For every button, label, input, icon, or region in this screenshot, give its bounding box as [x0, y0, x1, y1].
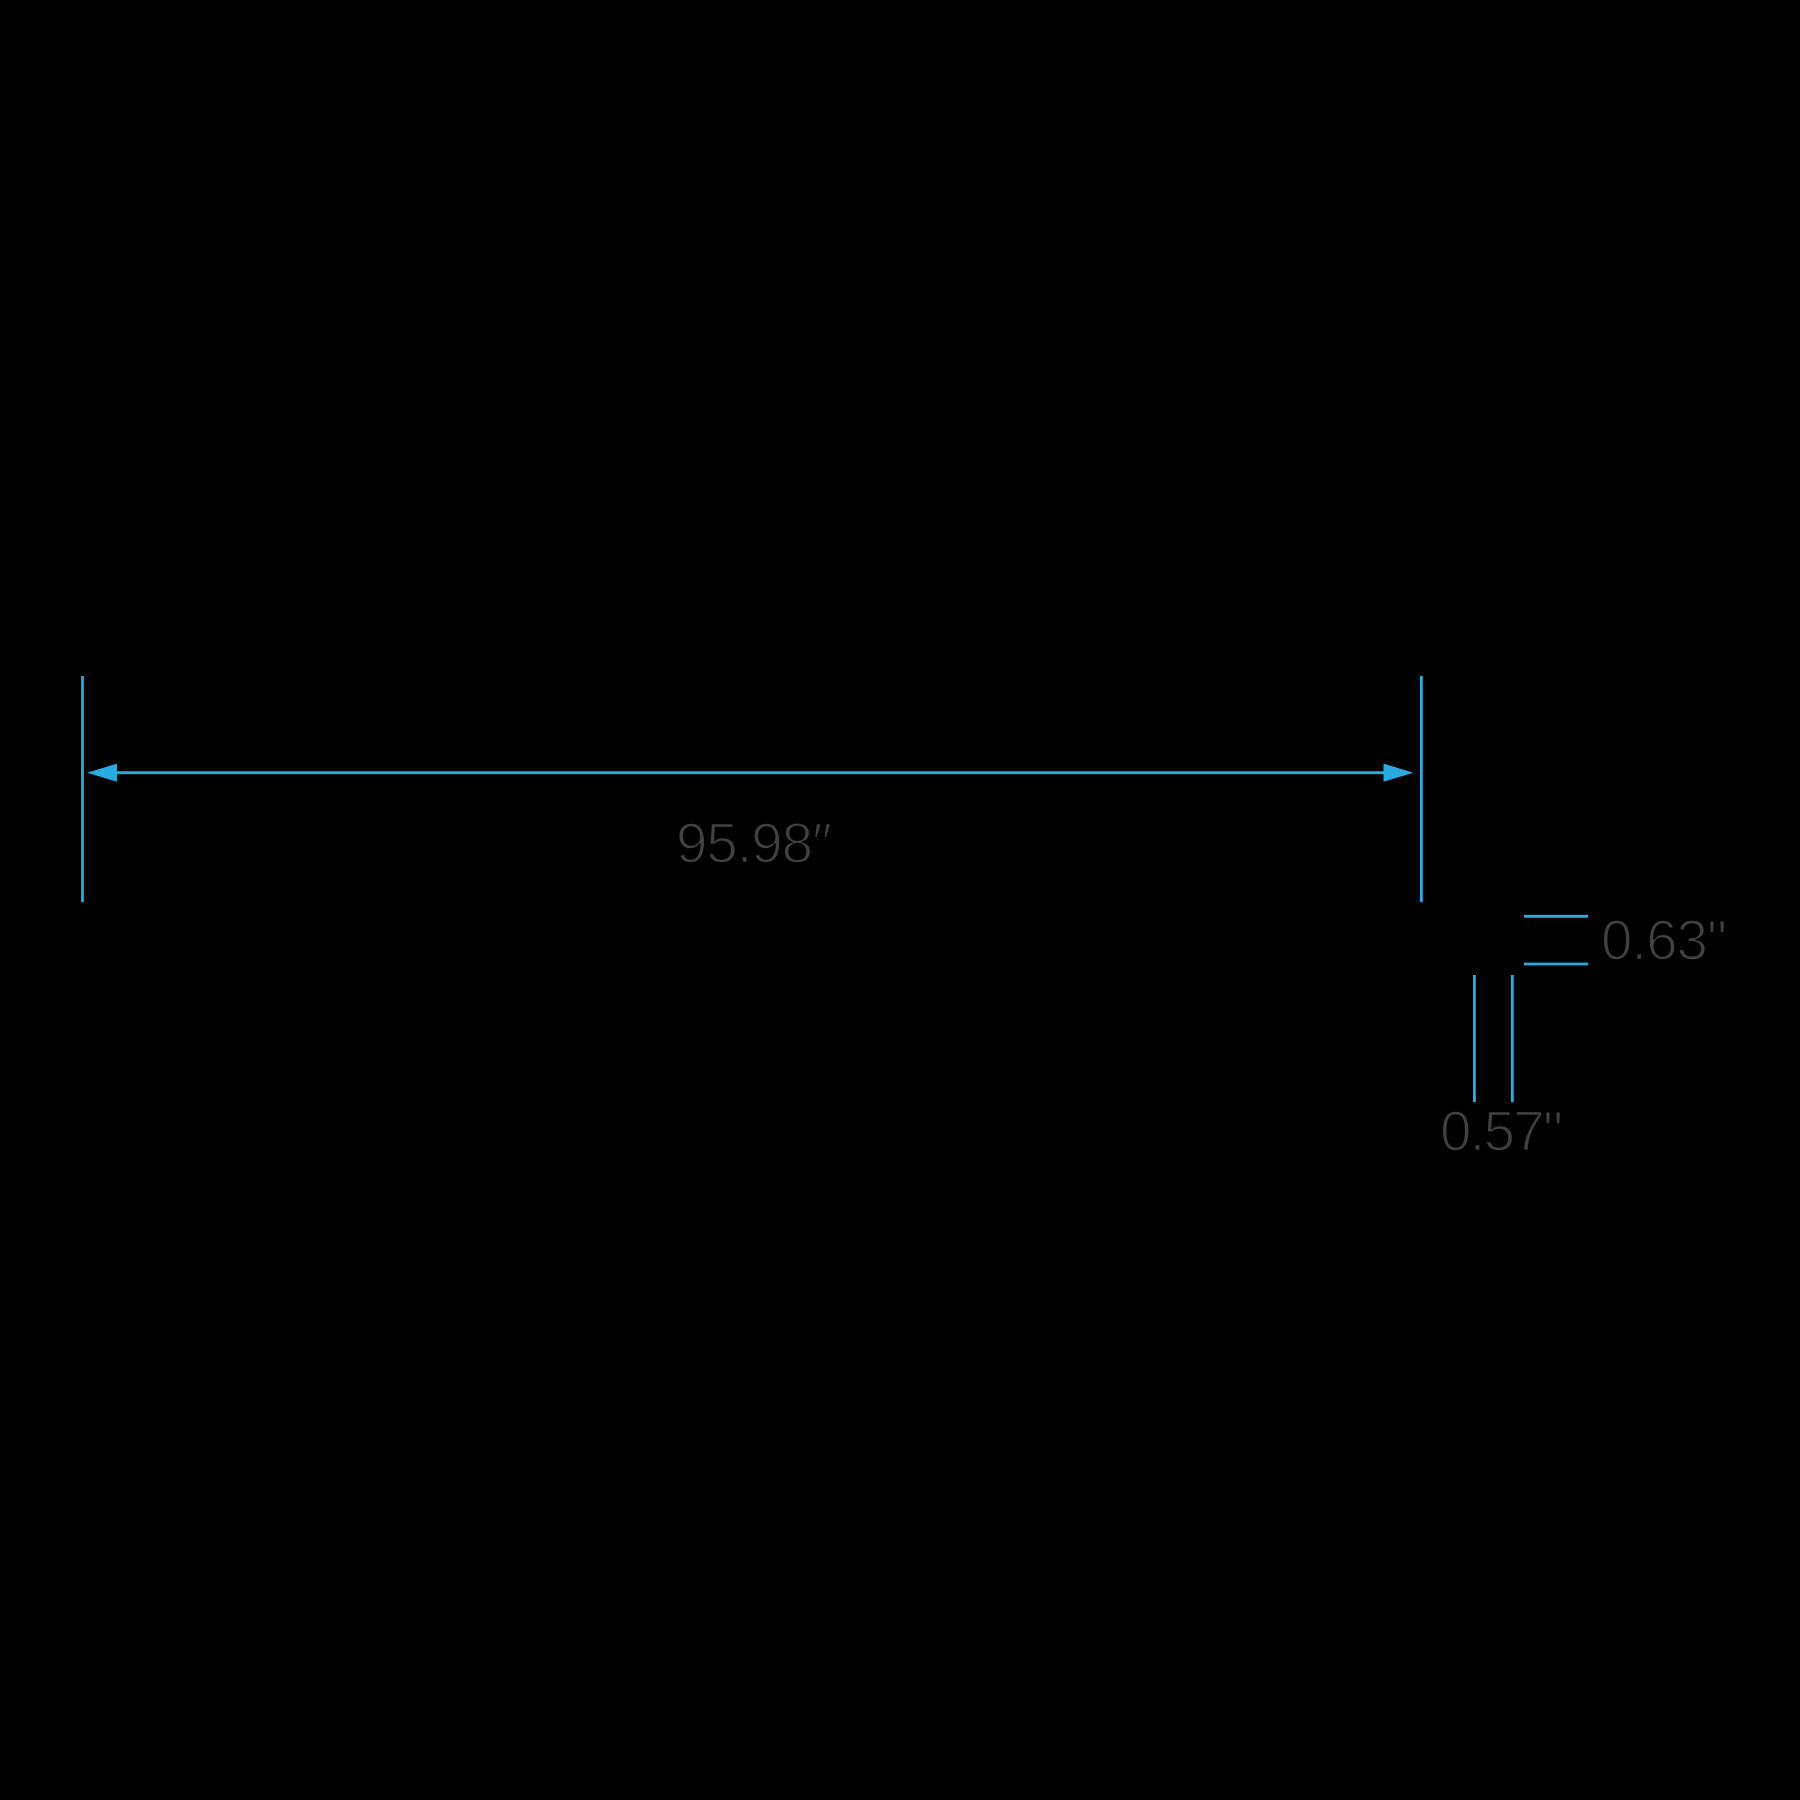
left extension line: [81, 676, 84, 902]
width dimension line: [116, 771, 1386, 774]
depth dimension right bar: [1511, 975, 1514, 1102]
svg-text:95.98″: 95.98″: [676, 812, 832, 875]
thickness dimension lower bar: [1524, 963, 1588, 966]
thickness dimension upper bar: [1524, 915, 1588, 918]
svg-text:0.63": 0.63": [1601, 909, 1727, 972]
left arrowhead: [87, 764, 117, 782]
right extension line: [1420, 676, 1423, 902]
svg-text:0.57": 0.57": [1440, 1100, 1563, 1163]
right arrowhead: [1384, 764, 1414, 782]
depth dimension left bar: [1473, 975, 1476, 1102]
